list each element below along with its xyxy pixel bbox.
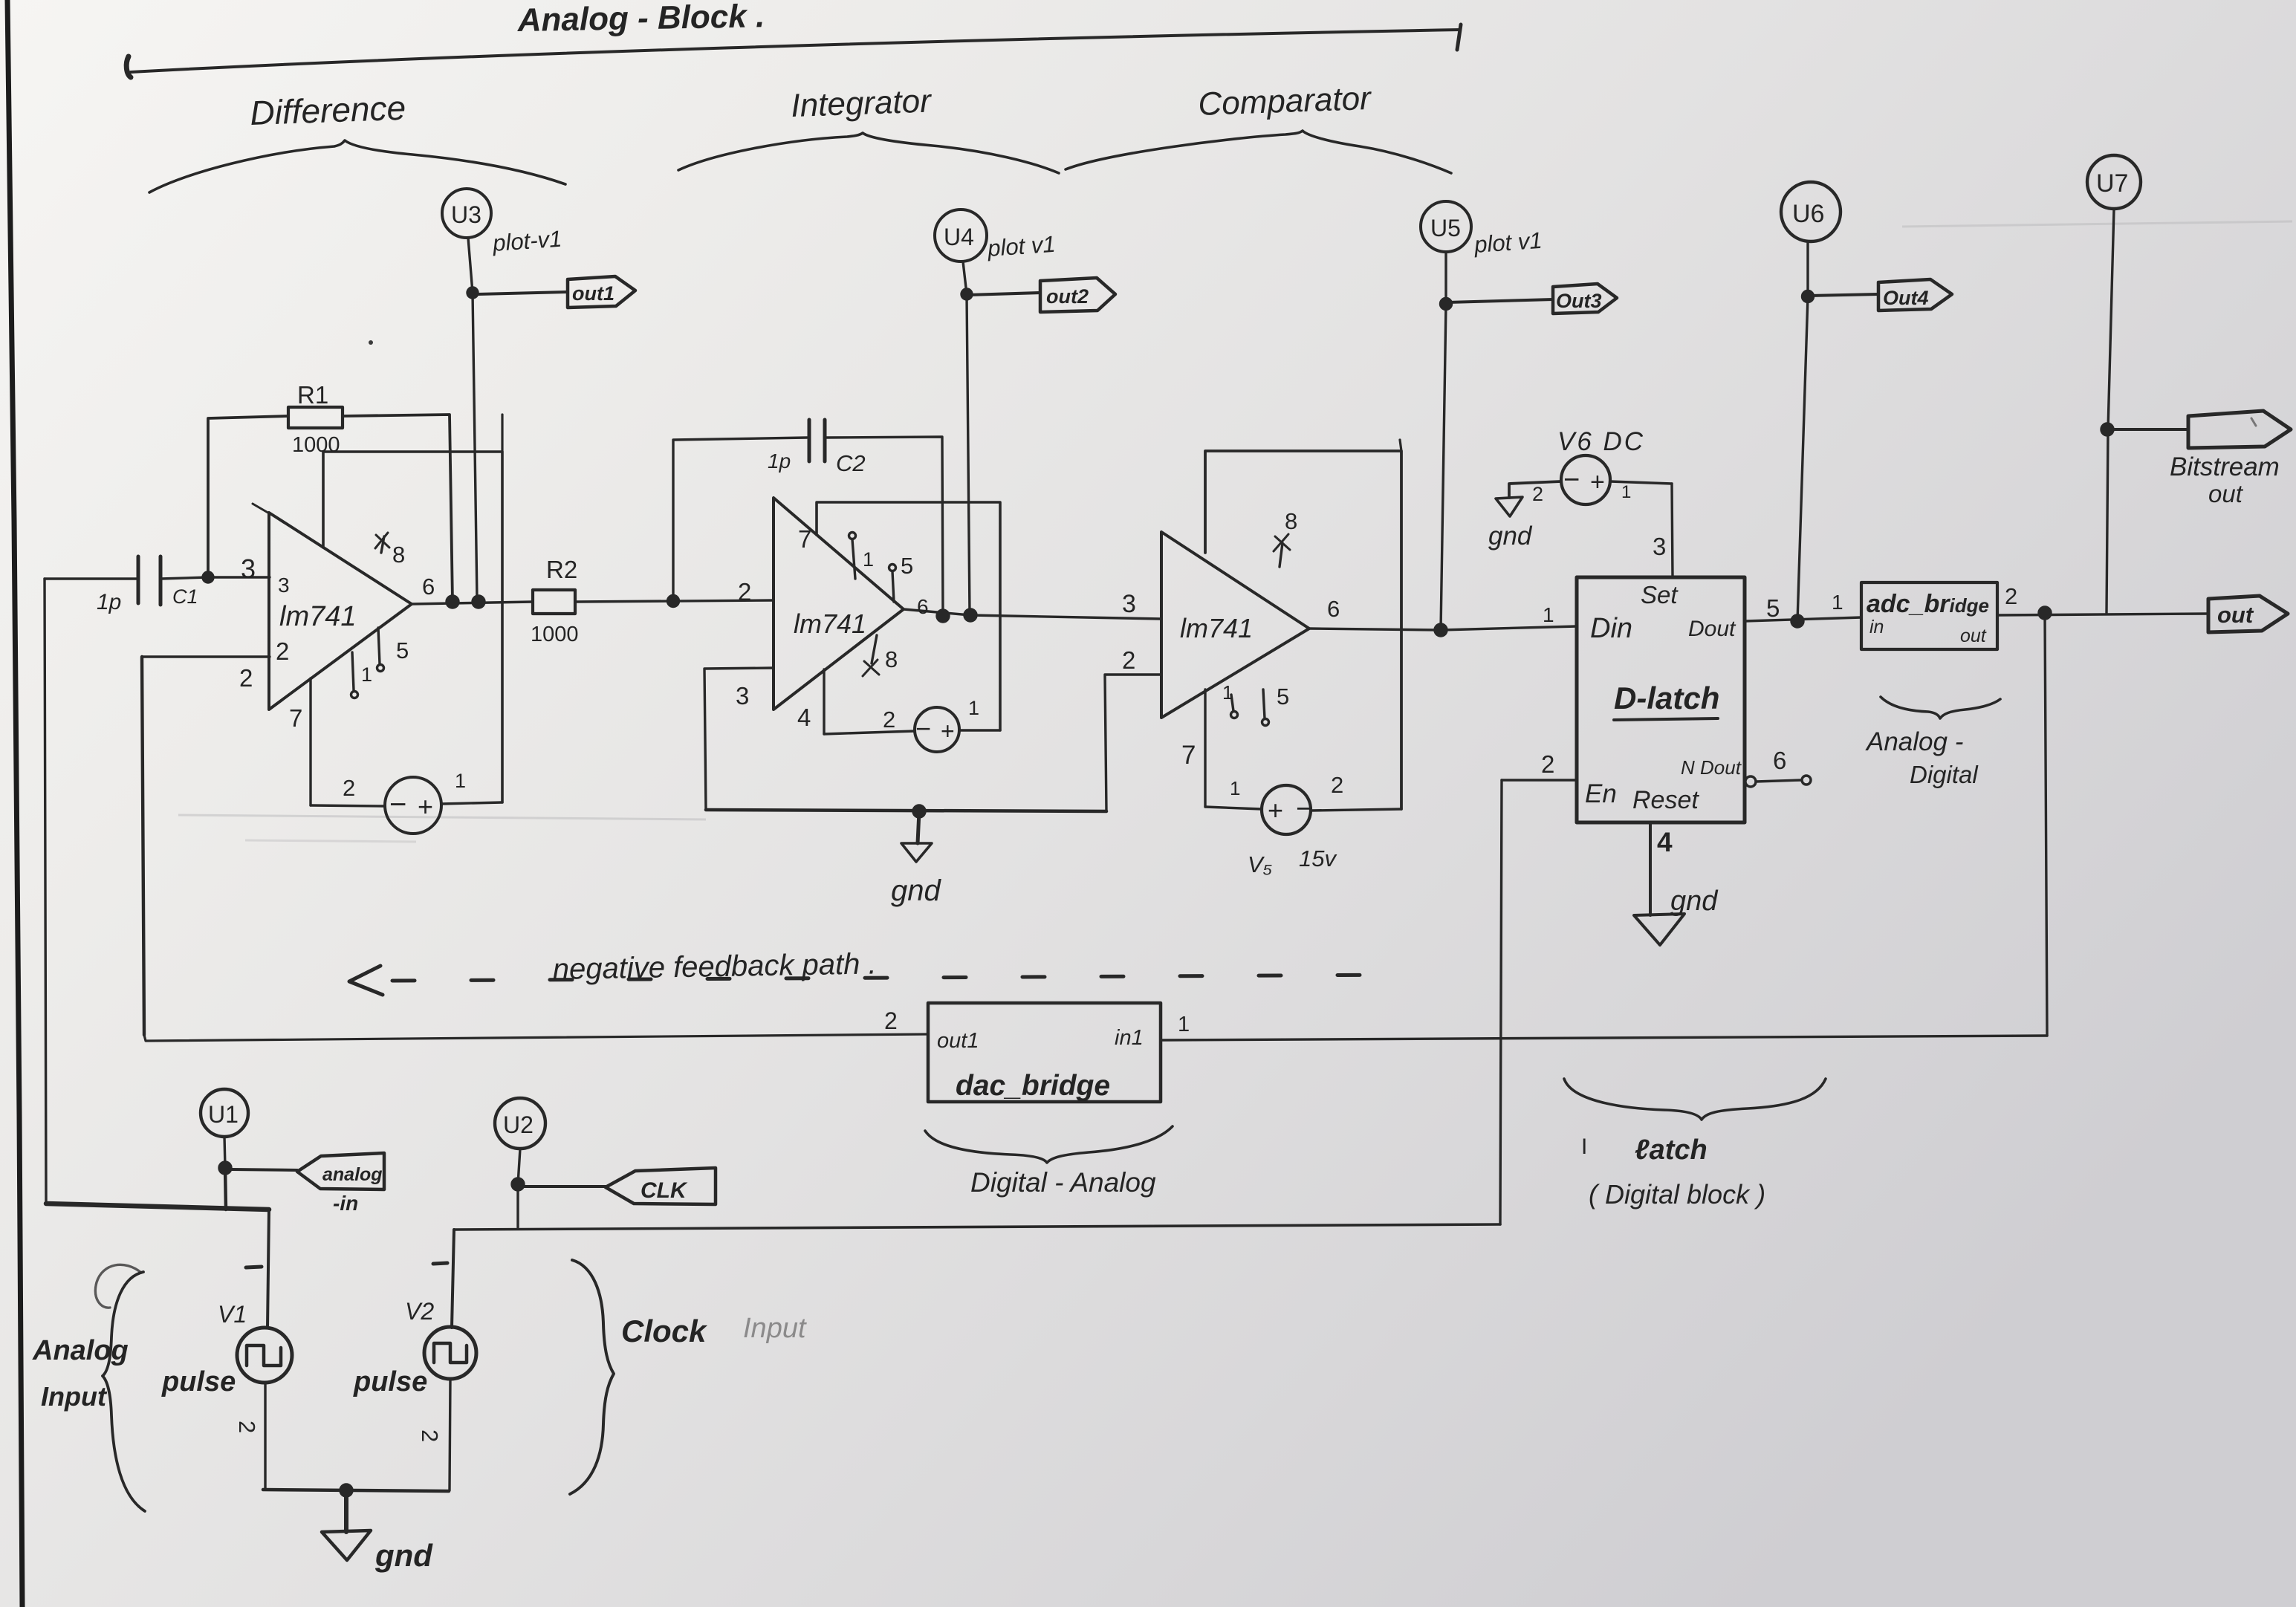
svg-text:plot-v1: plot-v1 [491,226,562,256]
svg-text:+: + [1590,468,1605,496]
op-amp2 pin 4 vertical [823,669,825,734]
svg-text:2: 2 [1122,646,1135,674]
resistor R2 body [533,590,575,614]
junction dot (C2 loop at R2 wire) [668,596,679,607]
svg-text:pulse: pulse [353,1366,427,1397]
capacitor C1 input wire [45,577,137,580]
svg-text:2: 2 [1541,750,1554,778]
faint paper creases [178,221,2292,842]
svg-text:Bitstream: Bitstream [2170,452,2280,481]
wire U5 down to comparator output [1441,304,1446,630]
gnd bus under integrator [706,810,1106,811]
svg-text:7: 7 [289,704,302,732]
svg-text:V1: V1 [218,1301,247,1328]
svg-text:5: 5 [396,637,409,663]
svg-text:CLK: CLK [641,1178,688,1203]
op-amp2 pin 5 stub [892,571,894,602]
svg-text:adc_bridge: adc_bridge [1867,590,1989,618]
pulse glyph V1 [247,1345,281,1366]
svg-text:in: in [1869,617,1884,637]
node U4 circle [935,210,987,262]
node dot at C1/pin3 [203,572,213,582]
flag analog-in [231,1169,297,1170]
wire U4 stem [963,262,967,294]
svg-text:R2: R2 [546,556,577,583]
gnd bus (sources) [263,1490,449,1491]
wire U2 stem [518,1149,520,1184]
wire: pin2 left vertical down to dac feedback [142,657,144,1035]
svg-text:Input: Input [743,1313,807,1344]
junction dot (U6 at Dout) [1791,615,1803,627]
wire V6 down to D-latch Set [1672,484,1673,577]
svg-text:1: 1 [1230,777,1240,799]
resistor R1 right wire [343,415,453,602]
wire U6 stem [1806,241,1809,296]
svg-text:U6: U6 [1792,200,1824,228]
op-amp lm741 U-A3 (comparator) triangle [1161,532,1309,718]
svg-text:−: − [389,788,406,821]
svg-text:Analog: Analog [32,1335,129,1366]
wire U1 down to analog bus [225,1168,226,1210]
op-amp3 pin 1 stub [1231,695,1233,711]
svg-text:U7: U7 [2096,169,2128,198]
svg-text:1000: 1000 [531,623,579,646]
svg-text:−: − [1563,464,1580,496]
brace Analog Input [103,1272,145,1511]
pulse source V1 circle [237,1328,292,1383]
svg-text:2: 2 [883,707,895,733]
En wire [1502,779,1577,781]
svg-text:15v: 15v [1299,845,1337,871]
svg-text:V6 DC: V6 DC [1557,427,1645,456]
svg-text:pulse: pulse [161,1366,236,1397]
node U2 circle [495,1098,545,1149]
flag out2 [968,293,1040,295]
brace under Integrator [678,133,1059,173]
dac in1 wire from feedback tap [1161,1036,2047,1040]
svg-text:1: 1 [1832,591,1843,614]
svg-text:2: 2 [276,637,289,665]
source V3 left wire [311,805,385,806]
svg-text:C1: C1 [172,585,198,608]
wire gnd bus up to comparator pin 2 [1105,675,1161,811]
svg-text:out: out [2217,602,2254,628]
svg-text:U1: U1 [208,1101,239,1128]
svg-text:2: 2 [884,1007,898,1034]
wire U3 down to opamp1 output [473,293,477,600]
wire U7 down to out line [2107,429,2108,613]
svg-text:Analog - Block .: Analog - Block . [516,0,765,39]
svg-text:1: 1 [1543,603,1554,626]
op-amp1 pin 1 stub [352,652,354,690]
op-amp3 pin 8 stub with X [1280,543,1282,567]
op-amp1 pin 5 stub [378,628,380,664]
pulse source V2 top wire with minus [452,1230,454,1328]
svg-text:Out3: Out3 [1556,290,1602,312]
op-amp lm741 U-A1 (difference) triangle [269,513,412,710]
pulse source V2 circle [424,1327,476,1379]
wire: left outer loop down from C1 [45,579,46,1204]
flag Bitstream out [2109,428,2188,431]
ground symbol (sources) [322,1530,371,1560]
op-amp2 inner box [817,502,1000,730]
node U7 circle [2087,155,2141,209]
title bracket line (Analog Block) [131,30,1460,72]
svg-text:2: 2 [234,1421,260,1433]
op-amp3 pin 7 vertical [1204,689,1206,807]
svg-text:Set: Set [1641,581,1679,608]
source V4 bottom loop: box right vertical to circle [960,729,1000,731]
svg-text:I: I [1581,1134,1587,1159]
capacitor C2 plates [808,420,811,461]
svg-text:lm741: lm741 [279,601,357,632]
svg-text:4: 4 [797,704,811,731]
source V4 left wire [824,731,915,734]
svg-text:6: 6 [422,574,435,600]
D-latch underline [1614,718,1718,720]
svg-text:D-latch: D-latch [1614,681,1719,715]
brace under dac_bridge (Digital-Analog) [925,1126,1173,1163]
svg-text:R1: R1 [297,381,328,409]
capacitor C2 right loop down to output [825,437,943,616]
svg-text:Comparator: Comparator [1198,80,1373,123]
svg-text:2: 2 [1532,483,1543,505]
ground symbol (D-latch) [1634,914,1684,945]
wire En vertical down to clock bus [1500,780,1502,1224]
svg-text:8: 8 [392,542,405,568]
svg-text:En: En [1585,779,1617,808]
pulse source V1 top wire with minus [267,1210,269,1328]
svg-text:8: 8 [885,646,898,672]
svg-text:Reset: Reset [1632,786,1699,814]
node U6 circle [1781,182,1841,241]
op-amp3 pin 5 stub [1263,689,1265,718]
svg-text:Clock: Clock [621,1314,708,1348]
svg-text:1000: 1000 [292,433,340,457]
flag out3 [1447,299,1553,302]
svg-text:2: 2 [239,664,253,692]
brace under Comparator [1066,131,1451,173]
resistor R2 right wire to integrator pin2 [575,600,774,602]
source V5 right wire [1311,809,1401,811]
wire U6 down to Dout [1797,296,1808,621]
svg-text:3: 3 [241,553,256,584]
svg-text:5: 5 [901,553,913,579]
node U3 circle [442,189,491,238]
flag out4 [1809,294,1878,296]
junction dot (U3 to output) [473,596,484,608]
source V5 left wire [1205,807,1262,809]
flag CLK [523,1185,606,1188]
svg-text:3: 3 [736,682,749,710]
resistor R1 body [288,407,343,428]
svg-text:plot v1: plot v1 [986,231,1057,262]
negative feedback dashed line [392,975,1404,981]
node U5 circle [1421,201,1471,252]
svg-text:7: 7 [798,525,811,553]
svg-text:1p: 1p [97,590,121,614]
svg-text:in1: in1 [1115,1026,1144,1050]
svg-text:out: out [2208,480,2244,507]
svg-text:3: 3 [1653,533,1666,560]
svg-text:out1: out1 [572,282,614,305]
D-latch box [1577,577,1745,822]
svg-text:2: 2 [343,775,355,801]
svg-text:lm741: lm741 [1180,613,1253,643]
svg-text:Integrator: Integrator [791,82,933,124]
svg-text:C2: C2 [836,450,866,476]
wire: bottom analog-input bus (thick) [46,1204,269,1210]
flag out [2208,596,2288,632]
wire U3 stem to out1 junction [468,238,473,293]
svg-text:gnd: gnd [1488,522,1533,551]
svg-text:lm741: lm741 [794,608,866,639]
svg-text:gnd: gnd [891,874,941,907]
wire U7 stem [2108,209,2114,429]
wire V1 bottom [264,1383,266,1490]
source V3 right wire [441,802,502,804]
svg-text:Difference: Difference [250,88,406,132]
svg-text:2: 2 [2005,583,2017,609]
negative feedback dashed arrow head [349,966,383,995]
svg-text:ℓatch: ℓatch [1635,1134,1708,1166]
svg-text:Out4: Out4 [1883,287,1929,309]
svg-text:−: − [1296,793,1312,825]
svg-text:Analog -: Analog - [1865,727,1963,756]
svg-text:U5: U5 [1430,215,1461,241]
op-amp1 inner feedback box [323,452,502,802]
svg-text:1: 1 [1621,482,1631,502]
dac_bridge box [928,1003,1161,1102]
junction dot out3 [1441,299,1452,310]
capacitor C1 plates [137,556,140,603]
svg-text:Dout: Dout [1688,617,1736,641]
dac out1 feedback wire to op-amp1 pin2 [144,1034,928,1041]
resistor R1 left wire [208,416,288,576]
svg-text:( Digital block ): ( Digital block ) [1589,1179,1765,1210]
svg-text:6: 6 [917,595,929,618]
svg-text:analog: analog [322,1164,383,1185]
junction dot (feedback tap) [2039,607,2051,619]
wire U2 down to clock bus [516,1184,519,1227]
junction dot (U5 at comparator output) [1435,624,1447,636]
brace under adc_bridge (Analog-Digital) [1881,697,2000,718]
NDout bubble [1745,776,1756,787]
svg-text:V₅: V₅ [1248,851,1272,877]
pulse glyph V2 [434,1343,467,1363]
source V6 left wire [1509,481,1561,497]
source V6 right wire [1610,481,1672,484]
Reset pin 4 vertical [1649,822,1652,915]
svg-text:1: 1 [968,697,979,719]
svg-text:Din: Din [1590,613,1632,644]
svg-text:dac_bridge: dac_bridge [956,1070,1110,1102]
svg-text:+: + [418,791,433,822]
svg-text:6: 6 [1327,596,1340,622]
svg-text:1: 1 [455,770,466,792]
svg-text:1: 1 [1222,681,1233,704]
ground symbol (integrator) [901,843,932,862]
Dout wire to adc_bridge [1745,617,1861,621]
svg-text:gnd: gnd [1670,886,1719,917]
svg-text:2: 2 [417,1429,443,1442]
svg-text:out1: out1 [937,1029,979,1053]
clock bus: V2 to En [454,1224,1500,1230]
svg-text:Input: Input [41,1381,108,1412]
svg-text:out: out [1960,626,1987,646]
junction dot U1 [219,1162,231,1174]
wire U4 down to integrator output [967,294,970,614]
junction dot out4 [1803,291,1814,302]
op-amp1 output wire pin 6 [412,602,533,604]
wire U1 stem [224,1137,225,1168]
op-amp2 pin 1 stub [852,539,855,579]
svg-text:Digital - Analog: Digital - Analog [970,1167,1156,1198]
op-amp1 pin 8 stub with X [381,536,384,553]
source V6 circle [1561,455,1610,504]
brace under D-latch (Latch digital block) [1564,1079,1826,1120]
svg-text:6: 6 [1773,747,1786,774]
brace under Difference [149,140,565,192]
svg-text:3: 3 [278,574,290,597]
junction dot bitstream [2101,423,2113,435]
svg-text:1: 1 [1178,1013,1190,1036]
wire V2 bottom [450,1379,450,1490]
op-amp3 feedback box top [1205,451,1401,809]
gnd stem (sources) [344,1490,348,1532]
junction dot (C2 at output) [937,610,949,622]
junction dot (gnd) [913,805,925,817]
source V5 circle [1262,785,1311,834]
op-amp2 output wire [904,609,1161,619]
junction dot (R1 to output) [447,596,458,608]
svg-text:5: 5 [1766,594,1780,622]
junction dot U2 [512,1178,524,1190]
svg-text:Digital: Digital [1910,761,1979,788]
op-amp1 pin 2 wire [142,655,270,658]
svg-text:U4: U4 [944,224,974,250]
svg-text:5: 5 [1277,684,1289,710]
op-amp3 output wire to D-latch Din [1309,626,1577,630]
gnd stem [918,811,919,843]
adc out wire to out flag [1997,614,2208,615]
op-amp lm741 U-A2 (integrator) triangle [774,498,904,710]
node U1 circle [201,1089,248,1137]
svg-text:out2: out2 [1046,285,1089,308]
NDout wire [1756,780,1801,782]
svg-text:U2: U2 [503,1111,534,1138]
svg-text:2: 2 [738,578,751,606]
adc_bridge box [1861,582,1997,649]
ground symbol (V6) [1496,497,1522,516]
junction dot gnd (sources) [340,1484,352,1496]
junction dot (U4 at output) [964,609,976,621]
source V3 circle [385,777,441,834]
svg-text:-in: -in [333,1192,358,1215]
wire C1 to pin3 junction [160,577,270,579]
svg-text:1: 1 [863,548,874,571]
wire feedback vertical (out line down to dac in1) [2045,613,2047,1036]
svg-text:−: − [915,713,931,744]
op-amp2 pin 8 stub with X [872,635,877,663]
svg-text:gnd: gnd [374,1538,433,1573]
svg-text:8: 8 [1285,508,1297,534]
svg-text:V2: V2 [405,1298,434,1325]
svg-text:N Dout: N Dout [1681,756,1742,779]
flag out1 [478,292,568,294]
svg-text:+: + [1268,795,1283,825]
svg-text:4: 4 [1657,827,1673,857]
svg-text:U3: U3 [451,201,481,228]
source V4 circle [915,707,959,752]
op-amp1 pin 7 vertical [309,678,311,805]
svg-text:plot v1: plot v1 [1473,227,1543,258]
svg-text:2: 2 [1331,772,1343,798]
svg-text:negative feedback path .: negative feedback path . [552,947,877,986]
wire U5 stem [1444,252,1447,304]
page edge [7,0,22,1607]
capacitor C2 left loop [673,438,807,601]
op-amp2 pin 3 loop [704,668,774,810]
brace Clock Input [570,1260,614,1494]
svg-text:+: + [941,718,955,744]
svg-text:1p: 1p [768,449,791,473]
svg-text:3: 3 [1122,590,1136,618]
svg-text:7: 7 [1181,741,1196,770]
svg-text:1: 1 [361,663,372,686]
